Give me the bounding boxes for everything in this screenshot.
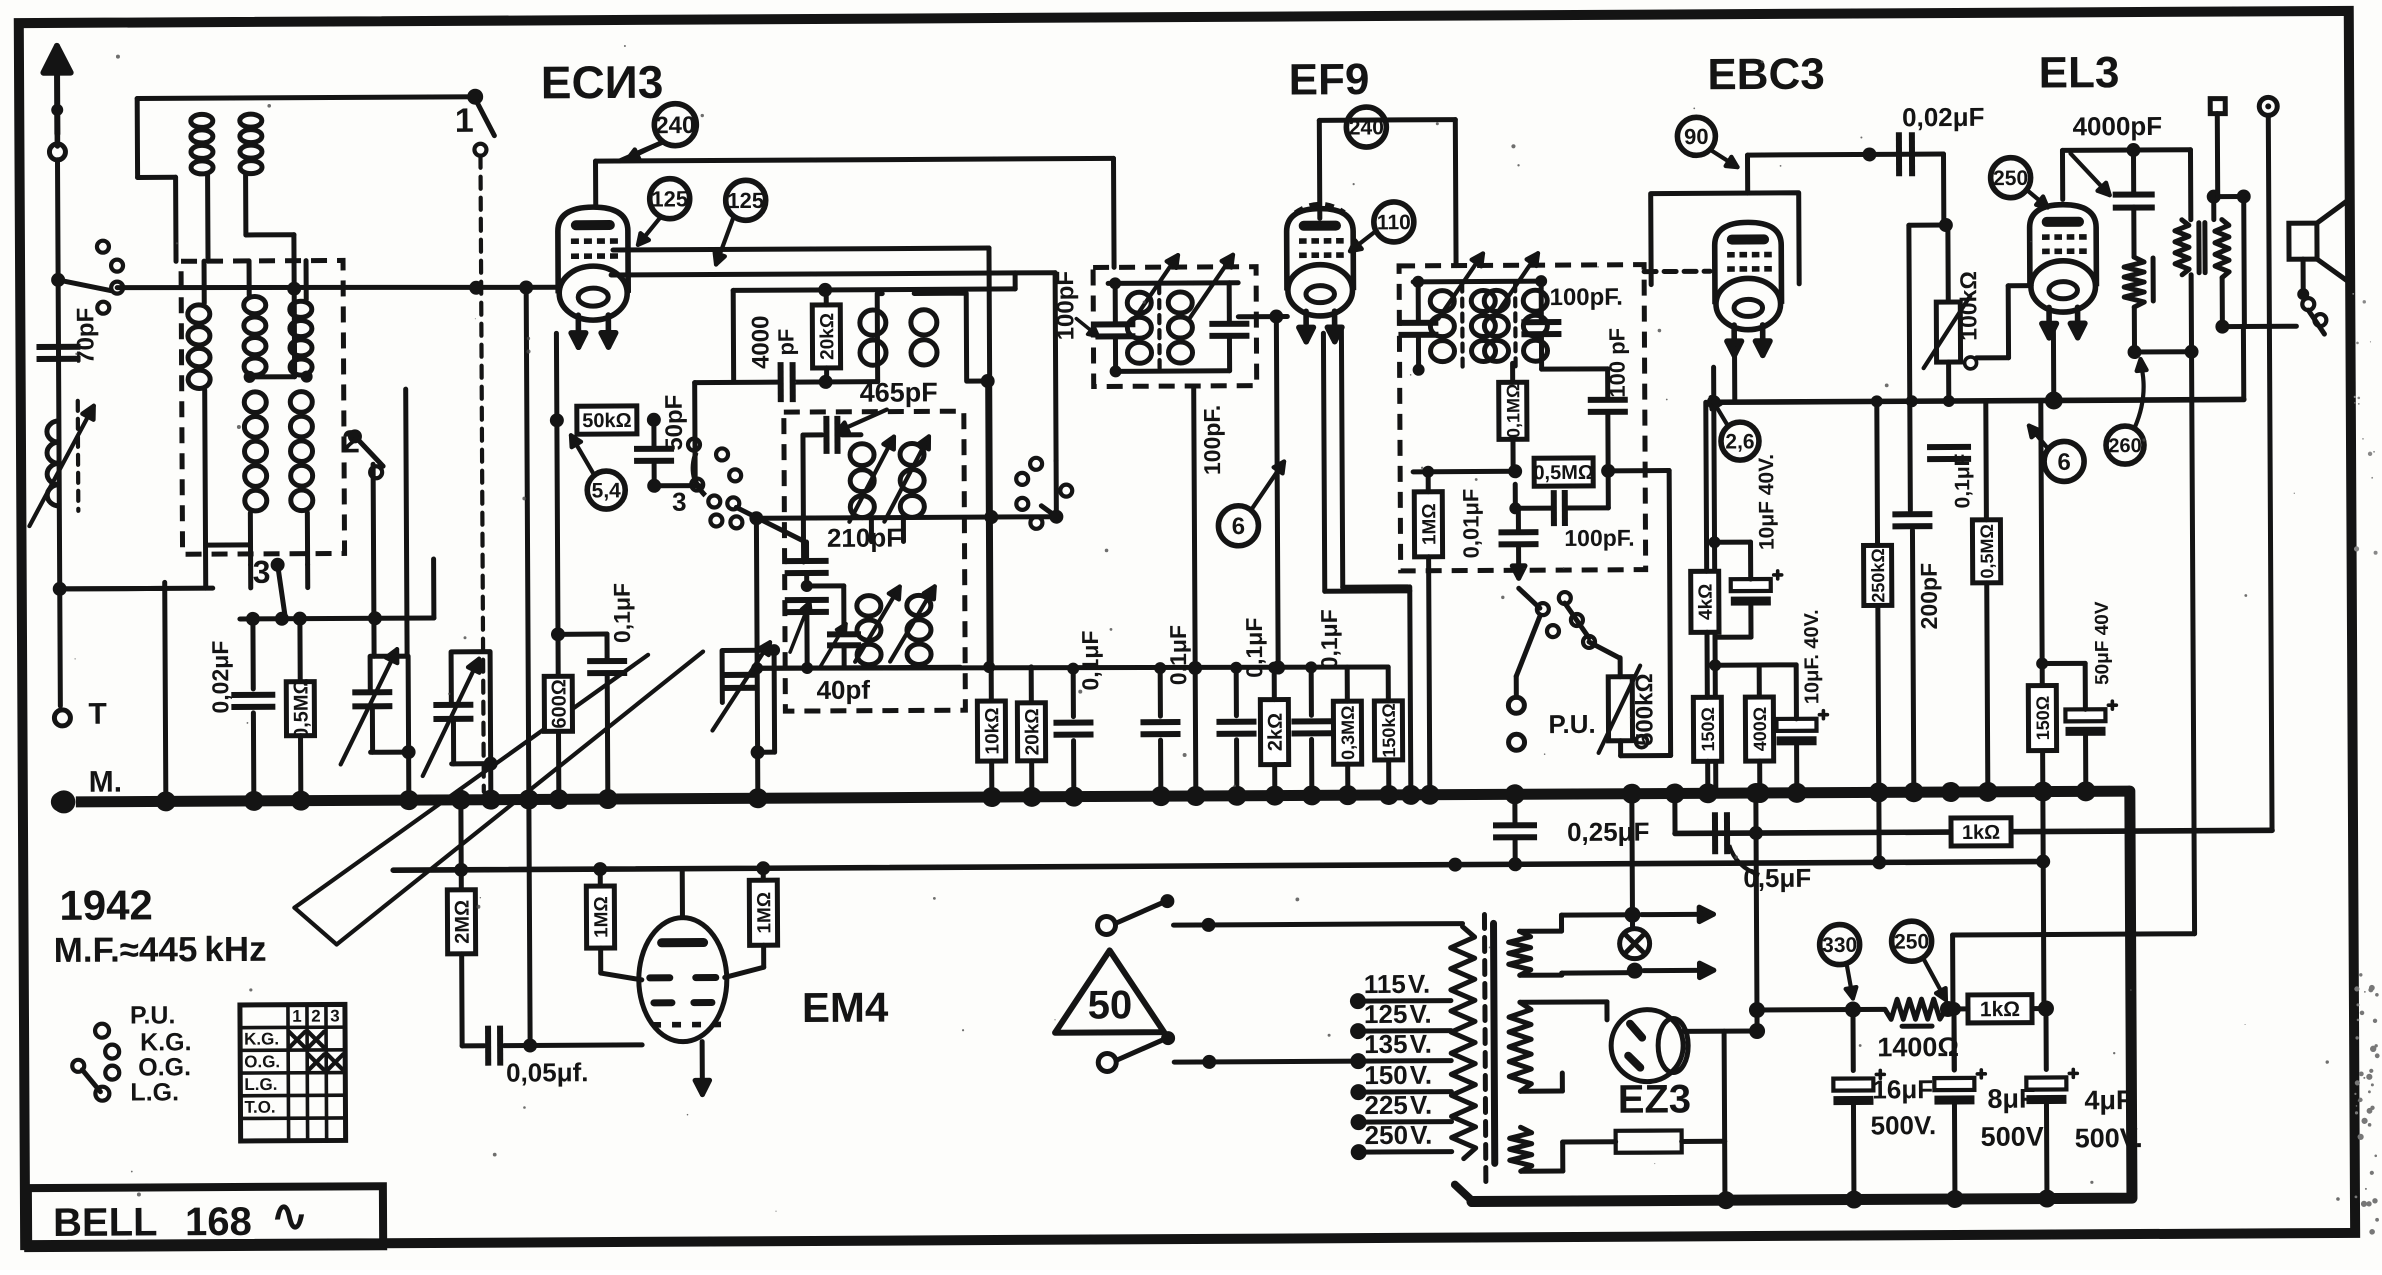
svg-text:0,1MΩ: 0,1MΩ bbox=[1503, 384, 1523, 439]
svg-text:210pF: 210pF bbox=[827, 523, 902, 553]
svg-text:168: 168 bbox=[185, 1200, 252, 1244]
svg-text:2,6: 2,6 bbox=[1725, 430, 1754, 453]
svg-text:125 V.: 125 V. bbox=[1364, 999, 1432, 1029]
svg-text:135 V.: 135 V. bbox=[1364, 1029, 1432, 1059]
svg-text:6: 6 bbox=[1232, 513, 1246, 540]
svg-text:260: 260 bbox=[2108, 435, 2141, 457]
svg-text:T.O.: T.O. bbox=[244, 1098, 275, 1117]
svg-text:EL3: EL3 bbox=[2039, 48, 2120, 97]
svg-text:2MΩ: 2MΩ bbox=[452, 900, 474, 944]
svg-text:100pF.: 100pF. bbox=[1549, 284, 1623, 311]
svg-text:250: 250 bbox=[1993, 167, 2028, 190]
svg-text:10μF 40V.: 10μF 40V. bbox=[1755, 454, 1779, 550]
svg-text:0,02μF: 0,02μF bbox=[1902, 102, 1985, 132]
svg-text:2kΩ: 2kΩ bbox=[1265, 713, 1287, 751]
svg-text:4μF.: 4μF. bbox=[2084, 1085, 2137, 1115]
svg-text:P.U.: P.U. bbox=[1548, 709, 1595, 739]
svg-text:330: 330 bbox=[1822, 934, 1857, 957]
svg-text:1kΩ: 1kΩ bbox=[1962, 822, 2000, 844]
svg-text:16μF: 16μF bbox=[1872, 1074, 1933, 1104]
svg-text:125: 125 bbox=[651, 186, 688, 211]
svg-text:5,4: 5,4 bbox=[592, 479, 622, 502]
svg-text:250 V.: 250 V. bbox=[1365, 1120, 1433, 1150]
svg-text:600Ω: 600Ω bbox=[548, 679, 570, 729]
svg-text:0,1μF: 0,1μF bbox=[1241, 618, 1267, 678]
svg-text:O.G.: O.G. bbox=[138, 1053, 191, 1081]
svg-text:EF9: EF9 bbox=[1289, 55, 1370, 104]
svg-text:100pF.: 100pF. bbox=[1564, 525, 1634, 551]
svg-text:500V: 500V bbox=[1981, 1122, 2044, 1152]
svg-text:1MΩ: 1MΩ bbox=[754, 892, 775, 934]
svg-text:50: 50 bbox=[1088, 983, 1133, 1027]
svg-text:2: 2 bbox=[311, 1007, 321, 1026]
svg-text:1kΩ: 1kΩ bbox=[1980, 998, 2020, 1021]
svg-text:0,05μf.: 0,05μf. bbox=[506, 1057, 589, 1087]
svg-text:500V.: 500V. bbox=[1870, 1110, 1936, 1140]
svg-text:0,5MΩ: 0,5MΩ bbox=[1533, 462, 1594, 484]
svg-text:0,1μF: 0,1μF bbox=[609, 583, 635, 643]
svg-text:110: 110 bbox=[1377, 211, 1411, 234]
svg-text:250kΩ: 250kΩ bbox=[1868, 548, 1888, 603]
svg-text:10kΩ: 10kΩ bbox=[982, 708, 1003, 755]
svg-text:400Ω: 400Ω bbox=[1750, 707, 1770, 752]
svg-text:3: 3 bbox=[672, 487, 687, 517]
svg-text:200pF: 200pF bbox=[1916, 563, 1942, 630]
svg-text:100pF.: 100pF. bbox=[1199, 405, 1225, 475]
svg-text:8μF: 8μF bbox=[1987, 1084, 2035, 1114]
svg-text:M.F.≈445 kHz: M.F.≈445 kHz bbox=[54, 930, 267, 970]
svg-text:1MΩ: 1MΩ bbox=[1419, 503, 1440, 545]
svg-text:0,3MΩ: 0,3MΩ bbox=[1338, 705, 1358, 760]
svg-text:20kΩ: 20kΩ bbox=[817, 313, 838, 360]
svg-text:100kΩ: 100kΩ bbox=[1955, 271, 1981, 341]
svg-text:10μF. 40V.: 10μF. 40V. bbox=[1801, 609, 1823, 704]
svg-text:50kΩ: 50kΩ bbox=[582, 410, 632, 432]
svg-text:P.U.: P.U. bbox=[130, 1001, 176, 1029]
svg-text:1: 1 bbox=[292, 1007, 302, 1026]
svg-text:3: 3 bbox=[330, 1006, 340, 1025]
svg-text:150 V.: 150 V. bbox=[1364, 1060, 1432, 1090]
svg-text:∿: ∿ bbox=[271, 1192, 308, 1241]
svg-text:150Ω: 150Ω bbox=[1698, 707, 1718, 752]
svg-text:4kΩ: 4kΩ bbox=[1696, 584, 1717, 620]
svg-text:K.G.: K.G. bbox=[244, 1029, 279, 1048]
svg-text:1MΩ: 1MΩ bbox=[591, 896, 612, 938]
svg-text:4000: 4000 bbox=[747, 315, 774, 369]
svg-text:EBC3: EBC3 bbox=[1707, 50, 1825, 100]
svg-text:3: 3 bbox=[253, 554, 271, 590]
svg-text:0,1μF: 0,1μF bbox=[1165, 625, 1191, 685]
svg-text:K.G.: K.G. bbox=[140, 1028, 192, 1056]
svg-text:O.G.: O.G. bbox=[244, 1052, 280, 1071]
svg-text:6: 6 bbox=[2057, 449, 2071, 476]
svg-text:150Ω: 150Ω bbox=[2033, 696, 2053, 741]
svg-text:70pF: 70pF bbox=[72, 308, 99, 364]
svg-text:0,02μF: 0,02μF bbox=[207, 641, 233, 714]
svg-text:40pf: 40pf bbox=[816, 675, 870, 705]
svg-text:240: 240 bbox=[655, 112, 695, 139]
svg-text:L.G.: L.G. bbox=[244, 1075, 277, 1094]
svg-text:0,25μF: 0,25μF bbox=[1567, 817, 1650, 847]
svg-text:100pF: 100pF bbox=[1052, 271, 1079, 341]
svg-text:L.G.: L.G. bbox=[130, 1078, 179, 1106]
svg-text:225 V.: 225 V. bbox=[1364, 1090, 1432, 1120]
svg-text:500V.: 500V. bbox=[2075, 1123, 2143, 1153]
svg-text:50μF 40V: 50μF 40V bbox=[2092, 601, 2113, 685]
svg-text:T: T bbox=[88, 698, 107, 731]
svg-text:0,5μF: 0,5μF bbox=[1743, 863, 1811, 893]
svg-text:pF: pF bbox=[773, 329, 798, 356]
svg-text:1942: 1942 bbox=[59, 881, 153, 928]
svg-text:465pF: 465pF bbox=[860, 377, 938, 407]
svg-text:1: 1 bbox=[455, 102, 474, 140]
svg-text:ECИ3: ECИ3 bbox=[541, 56, 664, 109]
svg-text:90: 90 bbox=[1684, 124, 1709, 149]
svg-text:EZ3: EZ3 bbox=[1618, 1077, 1692, 1121]
svg-text:EM4: EM4 bbox=[802, 984, 889, 1031]
svg-text:4000pF: 4000pF bbox=[2072, 111, 2162, 141]
svg-text:0,1μF: 0,1μF bbox=[1316, 609, 1342, 669]
svg-text:115 V.: 115 V. bbox=[1364, 969, 1430, 999]
svg-text:BELL: BELL bbox=[53, 1200, 158, 1245]
svg-text:2: 2 bbox=[342, 423, 360, 459]
svg-text:500kΩ: 500kΩ bbox=[1631, 673, 1658, 746]
svg-text:0,01μF: 0,01μF bbox=[1458, 489, 1483, 559]
svg-text:50pF: 50pF bbox=[661, 395, 688, 451]
svg-text:125: 125 bbox=[727, 188, 764, 213]
svg-text:0,5MΩ: 0,5MΩ bbox=[1977, 524, 1997, 579]
svg-text:250: 250 bbox=[1894, 930, 1929, 953]
svg-text:20kΩ: 20kΩ bbox=[1022, 708, 1043, 755]
svg-text:M.: M. bbox=[89, 766, 123, 799]
svg-text:1400Ω: 1400Ω bbox=[1877, 1032, 1959, 1062]
svg-text:0,1μF: 0,1μF bbox=[1077, 630, 1103, 690]
svg-text:0,5MΩ: 0,5MΩ bbox=[290, 678, 312, 739]
svg-text:150kΩ: 150kΩ bbox=[1379, 703, 1399, 758]
